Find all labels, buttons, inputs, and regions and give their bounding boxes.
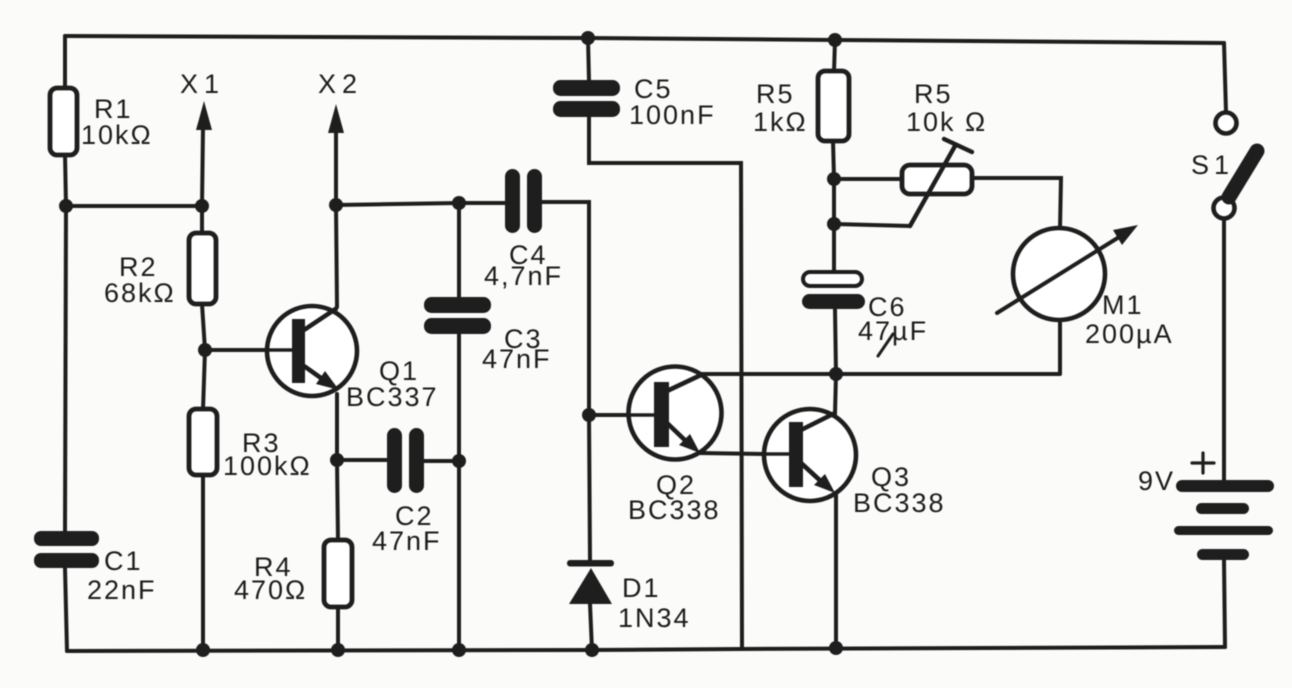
resistor R3 [189, 409, 217, 475]
capacitor C5 [553, 80, 620, 117]
wire R3 top lead [203, 350, 205, 410]
wire R2 top lead [200, 206, 204, 234]
wire Q1 base [205, 348, 290, 352]
wire switch top feed [1224, 43, 1226, 112]
wire C1 bottom to rail corner [65, 568, 67, 651]
svg-text:47nF: 47nF [372, 526, 442, 556]
capacitor C3 [424, 297, 491, 334]
wire R1 bottom to node [65, 154, 66, 206]
junction node rail R4 [331, 643, 345, 657]
svg-text:200µA: 200µA [1085, 319, 1174, 349]
capacitor C6 electrolytic [803, 272, 862, 286]
svg-text:C1: C1 [104, 546, 143, 576]
wire Q3 emitter drop to rail [834, 492, 838, 648]
wire meter bottom to collector run [1058, 320, 1062, 374]
wire Q1 collector riser [336, 205, 337, 307]
svg-text:10k Ω: 10k Ω [906, 107, 987, 137]
wire Q3 collector riser [835, 374, 836, 414]
junction node C3 top [452, 196, 466, 210]
junction node rail Q3 [829, 641, 843, 655]
svg-text:D1: D1 [622, 573, 661, 603]
svg-text:9V: 9V [1138, 466, 1175, 496]
junction node R1-X1 rail [59, 199, 73, 213]
wire R5 bottom to pot nodes and C6 [833, 140, 834, 272]
junction node pot wiper [827, 217, 841, 231]
svg-text:BC338: BC338 [628, 495, 721, 525]
svg-text:4,7nF: 4,7nF [484, 261, 563, 291]
wire battery bottom to rail corner [1224, 560, 1225, 647]
svg-text:10kΩ: 10kΩ [81, 120, 153, 150]
capacitor C4 [505, 169, 542, 233]
battery plus sign [1192, 453, 1214, 473]
svg-text:1N34: 1N34 [618, 603, 691, 633]
wire X2 node to C4 left [336, 203, 508, 205]
label tick under 47uF [878, 334, 893, 356]
wire pot left lead [834, 177, 902, 181]
wire Q2 base [589, 413, 629, 417]
wire C2 right to C3 line [420, 459, 459, 463]
wire D1 top lead [589, 415, 590, 561]
wire node A horizontal (R1 to X1/R2) [66, 204, 202, 208]
potentiometer R5 10k wiper arrow [910, 146, 955, 226]
resistor R2 [189, 233, 216, 304]
junction node rail R3 [196, 643, 210, 657]
wire X2 stem [334, 130, 338, 205]
junction node Q2 base/D1 [582, 408, 596, 422]
potentiometer R5 10k body [902, 165, 972, 194]
wire Q1 emitter drop [335, 394, 339, 460]
wire X1 stem [202, 128, 203, 206]
meter M1 [997, 225, 1138, 320]
svg-text:BC338: BC338 [853, 488, 946, 518]
capacitor C2 [387, 428, 424, 493]
wire C5 top lead [588, 38, 589, 81]
wire bottom rail [67, 647, 1225, 651]
transistor Q2 [628, 367, 722, 460]
junction node rail D1 [585, 643, 599, 657]
svg-text:47µF: 47µF [858, 316, 928, 346]
junction node X1/R2 [195, 199, 209, 213]
svg-text:S1: S1 [1191, 150, 1234, 180]
junction node Q1 emitter/C2 [330, 453, 344, 467]
wire R4 top lead [337, 460, 338, 540]
svg-text:47nF: 47nF [482, 344, 552, 374]
wire C6 bottom to collector node [835, 309, 836, 374]
capacitor C1 [34, 531, 99, 568]
wire node to C1 top [65, 206, 66, 531]
svg-text:68kΩ: 68kΩ [104, 278, 176, 308]
junction node rail C3 [452, 643, 466, 657]
wire R5 top lead [834, 40, 835, 72]
svg-text:R5: R5 [756, 79, 795, 109]
transistor Q1 [266, 306, 357, 396]
svg-text:100kΩ: 100kΩ [223, 451, 312, 481]
svg-text:R5: R5 [914, 79, 953, 109]
wire C4 right to Q2 base node [540, 202, 589, 415]
svg-text:BC337: BC337 [346, 382, 439, 412]
svg-text:470Ω: 470Ω [234, 575, 307, 605]
svg-text:100nF: 100nF [629, 100, 716, 130]
wire R1 top lead [63, 36, 67, 89]
wire pot right to meter top [972, 178, 1061, 229]
probe X1 arrow [196, 101, 212, 130]
wire C3 top lead [457, 203, 461, 301]
wire top rail [65, 36, 1224, 43]
battery B1 9V [1174, 480, 1274, 560]
resistor R4 [324, 540, 352, 607]
wire R3 bottom to rail [201, 474, 205, 650]
junction node C5 on top rail [581, 31, 595, 45]
svg-text:M1: M1 [1102, 290, 1144, 320]
wire C3 bottom through C2 node to rail [457, 330, 461, 650]
junction node X2/Q1 collector [329, 198, 343, 212]
resistor R5 1k [818, 71, 849, 141]
resistor R1 [50, 88, 77, 155]
wire pot wiper feed [834, 224, 910, 226]
junction node R5/pot left [827, 172, 841, 186]
junction node Q3 collector/C6 [829, 367, 843, 381]
probe X2 arrow [328, 104, 344, 133]
svg-text:X2: X2 [318, 69, 363, 99]
wire R2 bottom to base node [202, 304, 205, 350]
svg-text:1kΩ: 1kΩ [753, 107, 808, 137]
wire Q2 collector run [702, 372, 1059, 376]
diode D1 [567, 560, 614, 604]
transistor Q3 [763, 409, 856, 501]
junction node Q1 base [198, 343, 212, 357]
switch S1 [1214, 113, 1258, 219]
svg-text:22nF: 22nF [87, 575, 157, 605]
wire R4 bottom to rail [336, 606, 340, 650]
wire switch bottom to battery [1222, 219, 1226, 480]
wire Q2 emitter to Q3 base [699, 453, 764, 454]
junction node R5 on top rail [828, 33, 842, 47]
junction node C2/C3 [452, 454, 466, 468]
wire C5 bottom L-path to rail [589, 116, 742, 649]
wire D1 bottom to rail [590, 604, 592, 650]
svg-text:X1: X1 [180, 69, 225, 99]
wire emitter node to C2 left [337, 458, 386, 462]
